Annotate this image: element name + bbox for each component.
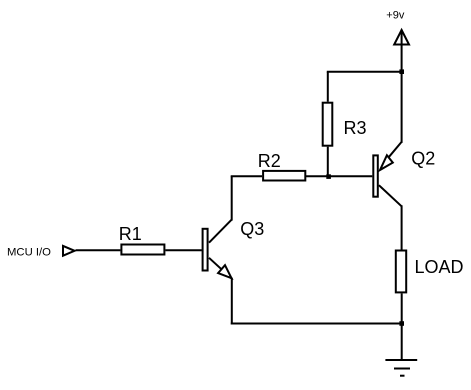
transistor Q3 base bar: [203, 229, 208, 271]
wire R2 to Q2 base: [306, 175, 372, 177]
svg-text:R1: R1: [119, 224, 142, 244]
wire R1 to Q3 base: [165, 249, 201, 251]
svg-text:R2: R2: [258, 151, 281, 171]
resistor R2: [263, 171, 305, 181]
wire R3 bottom stub: [327, 147, 329, 177]
wire Q2 collector down to LOAD: [401, 205, 403, 249]
transistor Q2 base bar: [373, 155, 378, 196]
wire Q2 emitter up: [401, 72, 403, 143]
wire R3 top stub: [327, 72, 329, 102]
+9v supply triangle: [394, 30, 409, 45]
junction node top rail: [399, 69, 404, 74]
resistor R3: [323, 103, 333, 146]
svg-text:LOAD: LOAD: [415, 257, 464, 277]
input port triangle: [63, 246, 75, 256]
svg-text:MCU I/O: MCU I/O: [7, 247, 51, 259]
wire Q3 emitter down: [231, 278, 233, 325]
resistor R1: [121, 245, 164, 255]
svg-text:R3: R3: [344, 118, 367, 138]
svg-text:+9v: +9v: [386, 9, 405, 21]
transistor Q2 collector diagonal: [379, 185, 402, 206]
svg-text:Q2: Q2: [411, 148, 435, 168]
ground symbol: [385, 360, 417, 376]
top rail wire: [327, 71, 402, 73]
load resistor: [396, 251, 406, 293]
wire +9v to rail: [401, 30, 403, 72]
bottom rail wire: [231, 323, 402, 325]
transistor Q3 emitter arrow: [218, 265, 231, 278]
junction node R2/R3/Q2 base: [326, 174, 331, 179]
wire input to R1: [76, 249, 121, 251]
transistor Q3 collector diagonal: [209, 220, 232, 243]
wire Q3 collector up: [231, 176, 233, 220]
wire Q3 collector to R2: [231, 175, 262, 177]
svg-text:Q3: Q3: [240, 219, 264, 239]
junction node bottom rail: [399, 321, 404, 326]
wire LOAD bottom: [401, 294, 403, 325]
transistor Q2 emitter arrow: [380, 155, 393, 170]
wire to ground: [401, 324, 403, 361]
transistor Q3 emitter diagonal: [209, 258, 232, 279]
transistor Q2 emitter diagonal: [388, 142, 401, 158]
